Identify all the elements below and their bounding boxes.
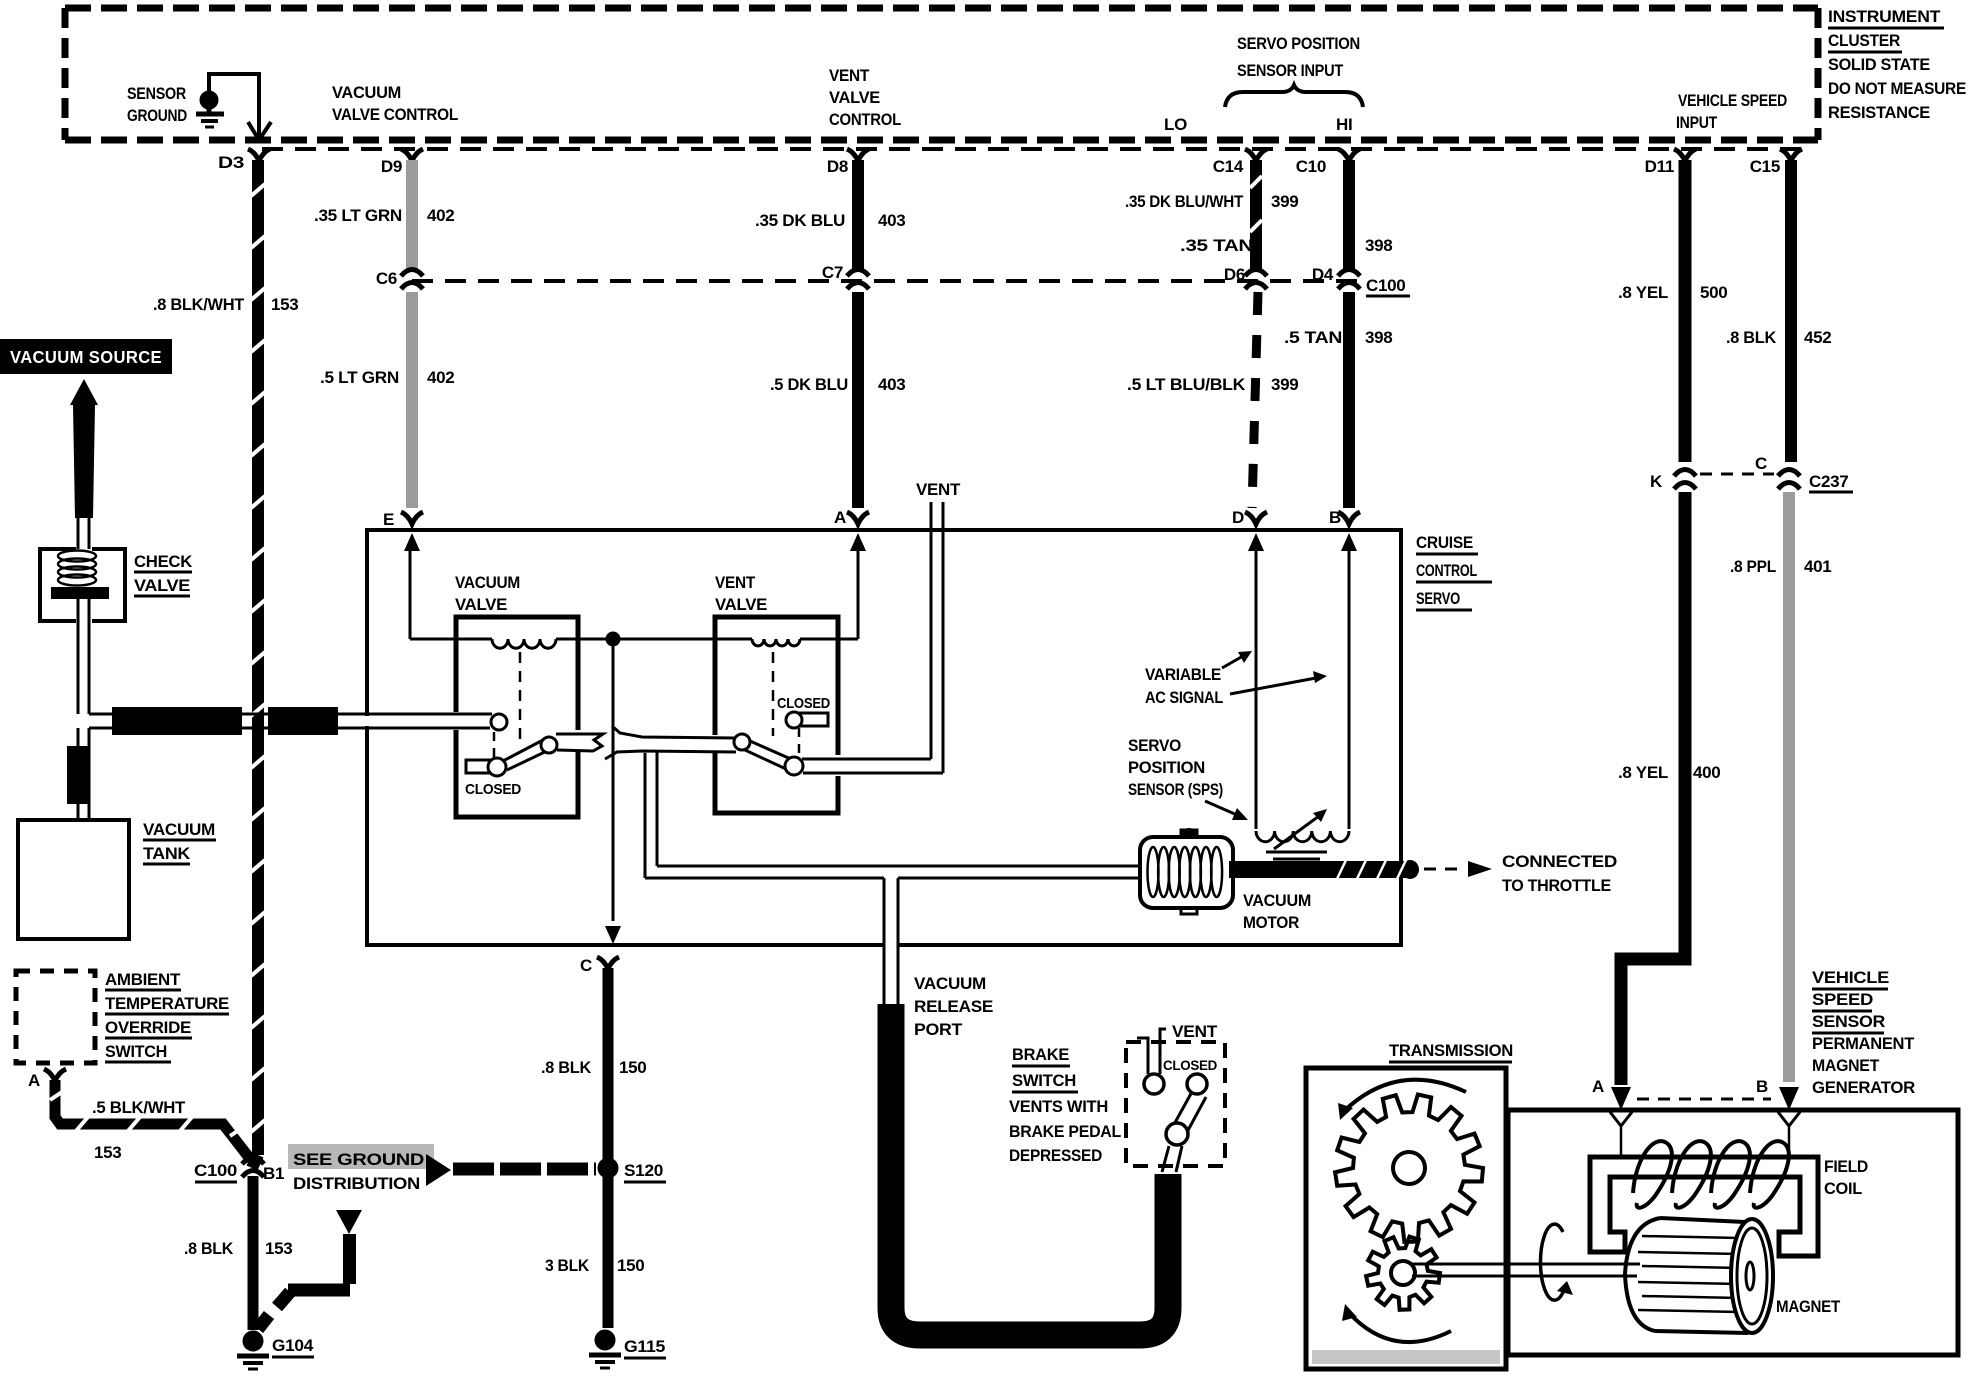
svg-text:.8 PPL: .8 PPL bbox=[1730, 557, 1776, 576]
vent valve seat bbox=[800, 713, 828, 726]
terminal A (ambient switch) bbox=[28, 1069, 66, 1090]
wire coil to A riser bbox=[800, 551, 858, 639]
svg-text:C15: C15 bbox=[1750, 157, 1780, 176]
connector C100 dashed line bbox=[412, 279, 1360, 283]
label field coil bbox=[1824, 1157, 1868, 1198]
svg-text:.5 LT BLU/BLK: .5 LT BLU/BLK bbox=[1127, 375, 1246, 394]
label .35 DK BLU 403 bbox=[755, 211, 905, 230]
ground distribution branch wire bbox=[258, 1210, 362, 1329]
svg-text:VACUUM: VACUUM bbox=[143, 820, 215, 839]
vent valve label bbox=[715, 573, 767, 614]
svg-text:D8: D8 bbox=[827, 157, 848, 176]
label check valve bbox=[134, 552, 193, 596]
vacuum source arrow & pipe bbox=[70, 379, 98, 518]
connector C237 dashed line bbox=[1700, 473, 1774, 476]
svg-text:BRAKE: BRAKE bbox=[1012, 1045, 1069, 1064]
svg-text:FIELD: FIELD bbox=[1824, 1157, 1868, 1176]
label transmission bbox=[1389, 1041, 1513, 1062]
svg-text:CLOSED: CLOSED bbox=[1163, 1057, 1217, 1073]
label .8 BLK 153 bbox=[184, 1239, 292, 1258]
vehicle speed sensor box bbox=[1508, 1110, 1958, 1355]
ground G104 bbox=[237, 1331, 314, 1369]
svg-text:VALVE: VALVE bbox=[829, 88, 880, 107]
svg-text:VALVE: VALVE bbox=[455, 595, 507, 614]
svg-text:TANK: TANK bbox=[143, 844, 191, 863]
svg-text:D11: D11 bbox=[1645, 157, 1674, 176]
rotation arc bottom bbox=[1342, 1304, 1451, 1342]
label ambient temperature override switch bbox=[105, 970, 229, 1062]
vent valve solenoid coil bbox=[752, 639, 800, 646]
svg-text:TRANSMISSION: TRANSMISSION bbox=[1389, 1041, 1513, 1060]
label: vacuum valve control bbox=[332, 83, 458, 124]
brake switch vent tube bbox=[1137, 1029, 1166, 1074]
wire 3 BLK 150 bbox=[603, 1176, 614, 1328]
svg-text:G104: G104 bbox=[272, 1336, 314, 1355]
ambient temperature override switch box bbox=[16, 971, 95, 1063]
svg-text:.5 BLK/WHT: .5 BLK/WHT bbox=[92, 1098, 186, 1117]
wire .8 BLK 150 bbox=[603, 968, 614, 1160]
tube below check valve bbox=[78, 599, 89, 714]
svg-text:CHECK: CHECK bbox=[134, 552, 193, 571]
svg-text:C100: C100 bbox=[1366, 276, 1405, 295]
label C100 (row) bbox=[1366, 276, 1410, 296]
vacuum valve dashed links bbox=[494, 652, 520, 757]
label .35 LT GRN 402 bbox=[314, 206, 454, 225]
svg-text:TO THROTTLE: TO THROTTLE bbox=[1502, 876, 1611, 895]
svg-text:PERMANENT: PERMANENT bbox=[1812, 1034, 1915, 1053]
svg-text:VACUUM: VACUUM bbox=[455, 573, 520, 592]
junction node bbox=[606, 632, 620, 646]
check valve plate bbox=[51, 587, 109, 599]
svg-text:CLOSED: CLOSED bbox=[777, 695, 830, 712]
label vacuum motor bbox=[1243, 891, 1311, 932]
svg-text:COIL: COIL bbox=[1824, 1179, 1862, 1198]
wire junction down to C bbox=[605, 645, 621, 944]
vacuum valve inlet tube bbox=[340, 714, 492, 728]
terminal E bbox=[383, 510, 423, 551]
arrow + dashed wire to S120 bbox=[426, 1154, 596, 1186]
svg-text:D4: D4 bbox=[1312, 265, 1334, 284]
connector C10 bbox=[1296, 149, 1360, 176]
arrow to SPS bbox=[1205, 801, 1248, 820]
svg-text:GROUND: GROUND bbox=[127, 106, 187, 125]
transmission box bbox=[1306, 1068, 1506, 1369]
vacuum valve lever bbox=[503, 740, 551, 770]
svg-text:402: 402 bbox=[427, 206, 454, 225]
label .5 LT GRN 402 bbox=[320, 368, 454, 387]
wire .5 LT GRN 402 (gray) bbox=[406, 292, 418, 508]
connector C14 bbox=[1213, 149, 1267, 176]
svg-text:SERVO POSITION: SERVO POSITION bbox=[1237, 34, 1360, 53]
svg-text:.8 BLK: .8 BLK bbox=[184, 1239, 234, 1258]
svg-text:LO: LO bbox=[1164, 115, 1187, 134]
svg-text:A: A bbox=[28, 1071, 40, 1090]
wire .35 TAN 398 bbox=[1343, 160, 1355, 270]
svg-text:VALVE CONTROL: VALVE CONTROL bbox=[332, 105, 458, 124]
label 3 BLK 150 bbox=[545, 1256, 644, 1275]
label .5 DK BLU 403 bbox=[770, 375, 905, 394]
label .8 YEL 400 bbox=[1618, 763, 1720, 782]
svg-text:452: 452 bbox=[1804, 328, 1831, 347]
svg-text:398: 398 bbox=[1365, 328, 1392, 347]
connector D11 bbox=[1645, 149, 1696, 176]
transmission small gear bbox=[1366, 1237, 1440, 1310]
vent valve lower pivot bbox=[785, 757, 803, 775]
vent valve left pivot bbox=[734, 734, 750, 750]
wire .8 BLK/WHT 153 (striped) bbox=[251, 160, 265, 1168]
label .35 DK BLU/WHT 399 bbox=[1125, 192, 1298, 211]
svg-text:SOLID STATE: SOLID STATE bbox=[1828, 55, 1930, 74]
svg-text:SENSOR: SENSOR bbox=[1812, 1012, 1885, 1031]
label connected to throttle bbox=[1502, 852, 1617, 895]
svg-text:OVERRIDE: OVERRIDE bbox=[105, 1018, 191, 1037]
svg-text:VENT: VENT bbox=[715, 573, 756, 592]
svg-text:VALVE: VALVE bbox=[134, 576, 190, 595]
svg-text:153: 153 bbox=[271, 295, 298, 314]
svg-text:399: 399 bbox=[1271, 192, 1298, 211]
svg-text:VACUUM: VACUUM bbox=[914, 974, 986, 993]
terminal C (servo bottom) bbox=[580, 956, 619, 975]
vent valve seat circle bbox=[786, 712, 802, 728]
connector row dashed line bbox=[262, 147, 1812, 151]
svg-text:CLUSTER: CLUSTER bbox=[1828, 31, 1900, 50]
svg-text:SWITCH: SWITCH bbox=[1012, 1071, 1076, 1090]
svg-text:RELEASE: RELEASE bbox=[914, 997, 993, 1016]
wire D riser to SPS bbox=[1255, 551, 1258, 829]
svg-text:VALVE: VALVE bbox=[715, 595, 767, 614]
svg-text:E: E bbox=[383, 510, 394, 529]
label .5 LT BLU/BLK 399 bbox=[1127, 375, 1298, 394]
svg-text:VACUUM: VACUUM bbox=[1243, 891, 1311, 910]
cruise control servo box bbox=[367, 530, 1401, 945]
svg-text:AMBIENT: AMBIENT bbox=[105, 970, 181, 989]
svg-text:SEE GROUND: SEE GROUND bbox=[293, 1150, 424, 1169]
wire .5 BLK/WHT 153 (striped) bbox=[50, 1080, 251, 1160]
shaft rotation arrow bbox=[1540, 1224, 1573, 1300]
svg-text:CONNECTED: CONNECTED bbox=[1502, 852, 1617, 871]
svg-text:SERVO: SERVO bbox=[1416, 589, 1460, 608]
connector D4 bbox=[1312, 265, 1360, 289]
svg-text:D9: D9 bbox=[381, 157, 402, 176]
svg-text:CRUISE: CRUISE bbox=[1416, 533, 1473, 552]
label .35 TAN 398 bbox=[1180, 236, 1392, 255]
vacuum valve label bbox=[455, 573, 520, 614]
transmission stipple bbox=[1312, 1350, 1500, 1364]
label .8 BLK 452 bbox=[1726, 328, 1831, 347]
svg-text:B: B bbox=[1756, 1077, 1768, 1096]
wire .5 DK BLU 403 bbox=[852, 292, 864, 508]
svg-text:D3: D3 bbox=[218, 153, 244, 172]
svg-text:DO NOT MEASURE: DO NOT MEASURE bbox=[1828, 79, 1966, 98]
svg-text:S120: S120 bbox=[624, 1161, 663, 1180]
svg-text:.5 LT GRN: .5 LT GRN bbox=[320, 368, 399, 387]
svg-text:VEHICLE: VEHICLE bbox=[1812, 968, 1889, 987]
connector C7 bbox=[822, 263, 869, 289]
svg-text:SPEED: SPEED bbox=[1812, 990, 1873, 1009]
vacuum valve seat bbox=[466, 760, 492, 773]
tube into check valve bbox=[78, 518, 89, 549]
svg-text:VENT: VENT bbox=[1172, 1022, 1218, 1041]
vacuum release port branch tube bbox=[884, 878, 898, 1004]
vent valve box bbox=[715, 617, 838, 813]
vacuum tube elbow to motor bbox=[645, 751, 1140, 878]
svg-text:3 BLK: 3 BLK bbox=[545, 1256, 590, 1275]
svg-text:CONTROL: CONTROL bbox=[829, 110, 901, 129]
svg-text:.8 YEL: .8 YEL bbox=[1618, 763, 1668, 782]
label .5 TAN 398 bbox=[1284, 328, 1392, 347]
label vacuum release port bbox=[914, 974, 993, 1039]
svg-text:GENERATOR: GENERATOR bbox=[1812, 1078, 1915, 1097]
label variable ac signal bbox=[1145, 665, 1223, 707]
wire .35 DK BLU/WHT 399 (black w/ white stripes) bbox=[1250, 160, 1262, 270]
tube T to servo (hose) bbox=[89, 707, 340, 735]
ground symbol (sensor ground) bbox=[196, 91, 224, 127]
svg-text:B1: B1 bbox=[263, 1164, 284, 1183]
svg-text:401: 401 bbox=[1804, 557, 1831, 576]
svg-text:POSITION: POSITION bbox=[1128, 758, 1205, 777]
dashed link to throttle bbox=[1424, 861, 1492, 877]
svg-text:.8 BLK: .8 BLK bbox=[541, 1058, 592, 1077]
connector C (C237) bbox=[1755, 454, 1800, 489]
brake switch contacts bbox=[1144, 1074, 1207, 1145]
svg-text:C100: C100 bbox=[194, 1161, 237, 1180]
label: vent valve control bbox=[829, 66, 901, 129]
ground G115 bbox=[589, 1330, 666, 1368]
instrument cluster dashed box bbox=[65, 8, 1818, 140]
svg-text:.8 YEL: .8 YEL bbox=[1618, 283, 1668, 302]
svg-text:SWITCH: SWITCH bbox=[105, 1042, 167, 1061]
label .8 YEL 500 bbox=[1618, 283, 1727, 302]
brace over LO / HI bbox=[1225, 85, 1363, 107]
label .8 BLK/WHT 153 bbox=[153, 295, 298, 314]
connector D3 bbox=[218, 149, 270, 172]
svg-text:.8 BLK/WHT: .8 BLK/WHT bbox=[153, 295, 245, 314]
vacuum motor shaft to throttle bbox=[1229, 858, 1419, 881]
svg-text:A: A bbox=[834, 508, 846, 527]
servo position sensor element bbox=[1256, 809, 1349, 866]
tube release port to brake switch bbox=[1162, 1146, 1182, 1172]
svg-text:C7: C7 bbox=[822, 263, 843, 282]
field coil yoke bbox=[1590, 1157, 1818, 1256]
label servo position sensor (SPS) bbox=[1128, 736, 1223, 799]
svg-text:.35 TAN: .35 TAN bbox=[1180, 236, 1253, 255]
svg-text:VACUUM: VACUUM bbox=[332, 83, 401, 102]
vacuum motor body bbox=[1140, 828, 1233, 914]
check valve box bbox=[40, 549, 125, 621]
svg-text:C: C bbox=[580, 956, 592, 975]
svg-text:D: D bbox=[1232, 508, 1244, 527]
label brake switch note bbox=[1009, 1045, 1121, 1165]
svg-text:400: 400 bbox=[1693, 763, 1720, 782]
magnet rotor bbox=[1625, 1218, 1773, 1333]
splice S120 bbox=[598, 1158, 666, 1182]
terminal B (generator) bbox=[1756, 1077, 1800, 1152]
funnel to vent valve tube bbox=[605, 726, 736, 759]
wire .5 TAN 398 bbox=[1343, 292, 1355, 508]
connector C100 B1 bbox=[194, 1158, 284, 1184]
wire coil to coil with junction bbox=[556, 638, 752, 641]
svg-text:500: 500 bbox=[1700, 283, 1727, 302]
vacuum valve box bbox=[456, 617, 578, 817]
svg-text:VENT: VENT bbox=[916, 480, 961, 499]
svg-text:398: 398 bbox=[1365, 236, 1392, 255]
vacuum valve pivot circle (tube end) bbox=[491, 714, 507, 730]
svg-text:BRAKE PEDAL: BRAKE PEDAL bbox=[1009, 1122, 1121, 1141]
svg-text:MAGNET: MAGNET bbox=[1812, 1056, 1880, 1075]
wire .8 YEL 500 bbox=[1679, 160, 1692, 462]
svg-text:C6: C6 bbox=[376, 269, 397, 288]
svg-text:VACUUM SOURCE: VACUUM SOURCE bbox=[10, 347, 162, 367]
wire .8 BLK 452 bbox=[1785, 160, 1797, 462]
wire .35 LT GRN 402 (gray) bbox=[406, 160, 418, 270]
svg-text:153: 153 bbox=[94, 1143, 121, 1162]
connector D8 bbox=[827, 149, 869, 176]
svg-text:C10: C10 bbox=[1296, 157, 1326, 176]
label: servo position sensor input bbox=[1237, 34, 1360, 80]
field coil winding bbox=[1633, 1141, 1789, 1208]
svg-text:.8 BLK: .8 BLK bbox=[1726, 328, 1777, 347]
label vehicle speed sensor permanent magnet generator bbox=[1812, 968, 1915, 1097]
wire .8 PPL 401 (gray) bbox=[1783, 492, 1795, 1082]
svg-text:K: K bbox=[1650, 472, 1663, 491]
svg-text:CLOSED: CLOSED bbox=[465, 781, 521, 798]
vacuum release port tube bbox=[891, 1004, 1168, 1335]
rotor shaft bbox=[1412, 1264, 1640, 1276]
svg-text:INSTRUMENT: INSTRUMENT bbox=[1828, 7, 1941, 26]
wire from sensor ground to D3 bbox=[209, 74, 271, 140]
svg-text:C14: C14 bbox=[1213, 157, 1244, 176]
dashed line between A and B bbox=[1637, 1098, 1771, 1101]
svg-text:VENT: VENT bbox=[829, 66, 870, 85]
vacuum valve upper pivot bbox=[541, 737, 557, 753]
rotation arc top bbox=[1338, 1080, 1466, 1120]
svg-text:G115: G115 bbox=[624, 1337, 665, 1356]
vacuum valve lower pivot bbox=[488, 758, 506, 776]
connector C6 bbox=[376, 269, 423, 289]
svg-text:CONTROL: CONTROL bbox=[1416, 561, 1477, 580]
vacuum valve solenoid coil bbox=[492, 639, 556, 648]
vent valve dashed links bbox=[773, 652, 799, 755]
connector C15 bbox=[1750, 149, 1802, 176]
check valve spring bbox=[58, 551, 96, 586]
svg-text:.35 LT GRN: .35 LT GRN bbox=[314, 206, 402, 225]
connector D6 bbox=[1224, 265, 1267, 289]
terminal B bbox=[1329, 508, 1360, 551]
svg-text:DEPRESSED: DEPRESSED bbox=[1009, 1146, 1102, 1165]
vacuum motor spring bbox=[1148, 847, 1223, 897]
transmission large gear bbox=[1335, 1095, 1483, 1242]
svg-text:MOTOR: MOTOR bbox=[1243, 913, 1299, 932]
terminal A bbox=[834, 508, 869, 551]
svg-text:VENTS WITH: VENTS WITH bbox=[1009, 1097, 1108, 1116]
wire .5 LT BLU/BLK 399 (dashed) bbox=[1252, 292, 1258, 508]
svg-text:DISTRIBUTION: DISTRIBUTION bbox=[293, 1174, 420, 1193]
svg-text:SENSOR INPUT: SENSOR INPUT bbox=[1237, 61, 1344, 80]
svg-text:402: 402 bbox=[427, 368, 454, 387]
svg-text:403: 403 bbox=[878, 375, 905, 394]
label .8 BLK 150 bbox=[541, 1058, 646, 1077]
wire B riser to SPS bbox=[1348, 551, 1351, 829]
svg-text:.35 DK BLU: .35 DK BLU bbox=[755, 211, 845, 230]
vent valve lever bbox=[745, 741, 793, 769]
label .5 BLK/WHT 153 bbox=[92, 1098, 186, 1162]
svg-text:C: C bbox=[1755, 454, 1767, 473]
sensor ground label bbox=[127, 84, 187, 125]
label vacuum tank bbox=[143, 820, 216, 864]
svg-text:SENSOR (SPS): SENSOR (SPS) bbox=[1128, 780, 1223, 799]
label cruise control servo bbox=[1416, 533, 1492, 610]
label .8 PPL 401 bbox=[1730, 557, 1831, 576]
svg-text:VEHICLE SPEED: VEHICLE SPEED bbox=[1678, 91, 1787, 110]
arrows variable ac signal bbox=[1222, 651, 1327, 694]
terminal D bbox=[1232, 508, 1267, 551]
svg-text:D6: D6 bbox=[1224, 265, 1245, 284]
svg-text:VARIABLE: VARIABLE bbox=[1145, 665, 1221, 684]
svg-text:403: 403 bbox=[878, 211, 905, 230]
svg-text:.5 DK BLU: .5 DK BLU bbox=[770, 375, 848, 394]
wire .8 BLK 153 to G104 bbox=[248, 1176, 259, 1330]
vacuum valve flag bbox=[556, 734, 603, 751]
instrument cluster title text bbox=[1828, 7, 1966, 122]
svg-text:153: 153 bbox=[265, 1239, 292, 1258]
label C237 bbox=[1809, 472, 1853, 492]
svg-text:MAGNET: MAGNET bbox=[1776, 1297, 1841, 1316]
connector K bbox=[1650, 470, 1696, 492]
svg-text:AC SIGNAL: AC SIGNAL bbox=[1145, 688, 1223, 707]
svg-text:INPUT: INPUT bbox=[1676, 113, 1718, 132]
svg-text:150: 150 bbox=[619, 1058, 646, 1077]
tube down to vacuum tank bbox=[67, 728, 90, 822]
svg-text:C237: C237 bbox=[1809, 472, 1848, 491]
brake switch dashed box bbox=[1126, 1042, 1225, 1166]
svg-text:150: 150 bbox=[617, 1256, 644, 1275]
svg-text:RESISTANCE: RESISTANCE bbox=[1828, 103, 1930, 122]
vacuum tank box bbox=[18, 820, 129, 939]
connector D9 bbox=[381, 149, 423, 176]
svg-text:TEMPERATURE: TEMPERATURE bbox=[105, 994, 229, 1013]
wire E riser to solenoid coils bbox=[410, 551, 492, 639]
svg-text:SENSOR: SENSOR bbox=[127, 84, 186, 103]
wire .8 YEL 400 bbox=[1621, 492, 1685, 1085]
vacuum source label bbox=[0, 339, 172, 374]
see ground distribution note bbox=[288, 1144, 434, 1193]
terminal A (generator) bbox=[1592, 1077, 1632, 1156]
svg-text:PORT: PORT bbox=[914, 1020, 963, 1039]
svg-text:399: 399 bbox=[1271, 375, 1298, 394]
svg-text:.5 TAN: .5 TAN bbox=[1284, 328, 1342, 347]
svg-text:HI: HI bbox=[1336, 115, 1352, 134]
svg-text:A: A bbox=[1592, 1077, 1604, 1096]
vent tube from vent valve bbox=[802, 502, 943, 773]
svg-text:.35 DK BLU/WHT: .35 DK BLU/WHT bbox=[1125, 192, 1244, 211]
svg-text:SERVO: SERVO bbox=[1128, 736, 1181, 755]
wire .35 DK BLU 403 bbox=[852, 160, 864, 270]
label: vehicle speed input bbox=[1676, 91, 1787, 132]
